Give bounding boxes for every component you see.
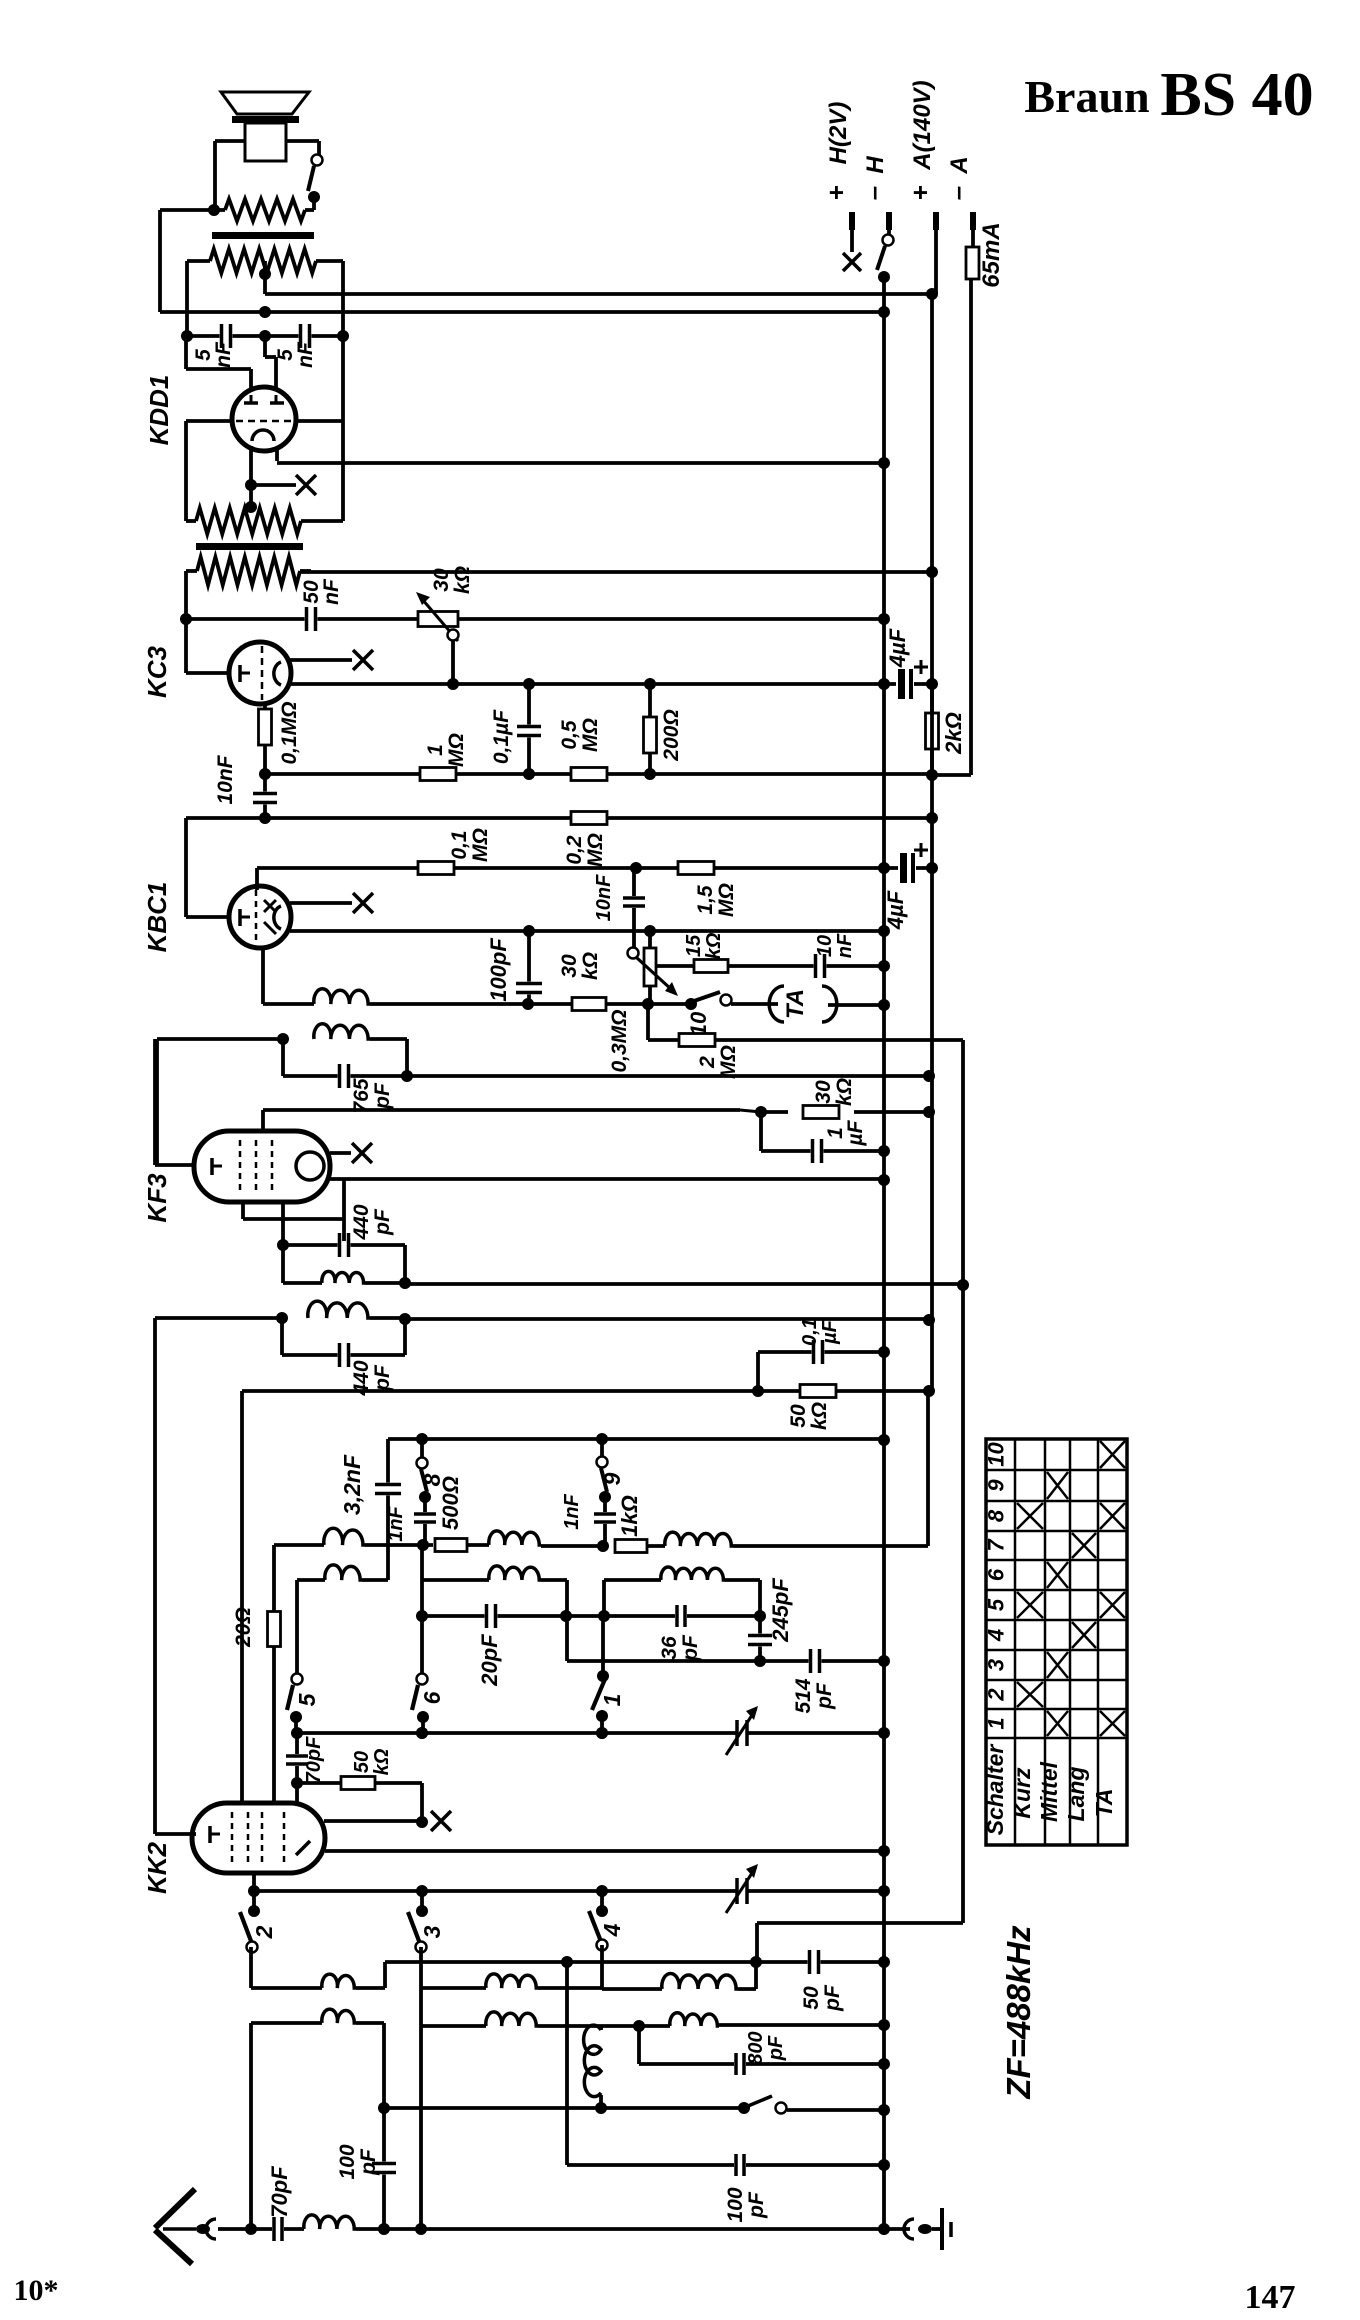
title BS 40 <box>1160 61 1313 129</box>
wire W33 KK2 cathode <box>248 1864 890 1913</box>
connector TA <box>731 986 890 1022</box>
resistor 50kOhm det <box>800 1385 836 1398</box>
label 800pF <box>745 2031 787 2064</box>
svg-text:BS 40: BS 40 <box>1160 61 1313 129</box>
resistor 30kOhm AGC <box>572 998 606 1011</box>
terminal +A <box>905 80 936 294</box>
svg-text:30: 30 <box>812 1080 835 1104</box>
svg-text:4: 4 <box>984 1629 1009 1642</box>
capacitor 10nF KBC1 <box>623 868 645 948</box>
switch 3 vertical <box>419 1947 423 2229</box>
svg-text:Kurz: Kurz <box>1009 1767 1035 1819</box>
coil ant row2 left <box>251 2009 390 2229</box>
svg-text:kΩ: kΩ <box>371 1748 393 1775</box>
label 0,3MOhm <box>608 1009 631 1072</box>
label 0,1MOhm KC3 <box>278 701 301 764</box>
svg-text:pF: pF <box>371 1364 394 1392</box>
wire W38 osc switch line <box>384 2102 750 2114</box>
resistor 0,1MOhm KC3 <box>259 704 272 773</box>
svg-text:MΩ: MΩ <box>717 1045 740 1079</box>
capacitor 100pF ant <box>372 2108 396 2235</box>
svg-text:KDD1: KDD1 <box>144 375 174 446</box>
wire KDD1 grid2 <box>265 336 276 395</box>
svg-text:H: H <box>862 156 889 174</box>
label 100pF KBC1 <box>486 938 511 1002</box>
svg-text:2: 2 <box>696 1056 719 1069</box>
svg-text:1nF: 1nF <box>561 1493 583 1529</box>
capacitor 1nF sw8 <box>414 1496 436 1545</box>
capacitor 765pF <box>283 1039 413 1088</box>
wire W23 box top <box>388 1433 890 1446</box>
svg-text:4µF: 4µF <box>885 628 910 668</box>
transformer core T2 <box>196 543 303 550</box>
svg-text:A(140V): A(140V) <box>909 80 936 170</box>
resistor 2MOhm <box>679 1034 715 1047</box>
label 1uF <box>824 1119 867 1146</box>
chassis X KDD1 <box>251 475 316 495</box>
resistor 0,5MOhm <box>571 768 607 781</box>
label 1kOhm <box>617 1495 642 1537</box>
label 36pF <box>658 1634 702 1662</box>
transformer core T1 <box>212 232 314 239</box>
svg-text:kΩ: kΩ <box>703 932 725 959</box>
label 30kOhm <box>430 566 474 594</box>
chassis X KF3 <box>330 1143 372 1163</box>
label KBC1 <box>142 882 172 953</box>
capacitor 440pF IF3 <box>282 1318 405 1367</box>
svg-text:+: + <box>821 185 851 200</box>
rail -H <box>882 277 886 2229</box>
svg-text:50: 50 <box>800 1986 823 2010</box>
svg-text:kΩ: kΩ <box>451 566 474 594</box>
label 765pF <box>350 1078 394 1113</box>
svg-text:kΩ: kΩ <box>579 952 602 980</box>
svg-text:–: – <box>858 186 888 200</box>
wire W4 secondary to +A <box>300 566 938 578</box>
label 500Ohm <box>438 1476 463 1530</box>
wire T2 secondary left leg <box>180 571 192 625</box>
label 30kOhm AGC <box>558 952 602 980</box>
svg-text:kΩ: kΩ <box>808 1402 831 1430</box>
label 50pF <box>800 1984 844 2012</box>
switch 8 <box>417 1439 446 1503</box>
svg-text:ZF=488kHz: ZF=488kHz <box>1000 1925 1037 2100</box>
svg-text:pF: pF <box>765 2035 787 2061</box>
capacitor 1uF <box>761 1112 890 1163</box>
label 50kOhm KK2 <box>351 1748 393 1775</box>
wire speaker left <box>215 141 245 210</box>
coil row2 right <box>601 2013 890 2032</box>
antenna <box>155 2189 216 2264</box>
switch 5 <box>287 1580 320 1739</box>
wire IF3 left leg <box>153 1318 157 1834</box>
svg-text:9: 9 <box>984 1479 1009 1492</box>
label 2MOhm <box>696 1045 740 1079</box>
svg-text:1: 1 <box>599 1694 625 1707</box>
resistor speaker field <box>225 199 305 221</box>
wire W12 cathode line <box>263 948 697 1010</box>
wire -A down leg <box>932 279 971 775</box>
potentiometer 0,3MOhm <box>628 925 679 1004</box>
svg-text:9: 9 <box>599 1472 625 1485</box>
wire row B right <box>604 1567 760 1616</box>
label 50nF <box>300 578 343 605</box>
capacitor 0,1uF <box>517 684 541 774</box>
page mark 10* <box>14 2274 59 2307</box>
svg-text:0,2: 0,2 <box>563 835 586 865</box>
svg-text:TA: TA <box>782 989 809 1019</box>
svg-text:10*: 10* <box>14 2274 59 2307</box>
label 20Ohm <box>232 1607 255 1648</box>
label 1,5MOhm <box>694 883 738 917</box>
label 0,1uF det <box>799 1318 841 1346</box>
wire W32 KK2 anode <box>325 1845 890 1857</box>
wire row B left <box>297 1565 388 1580</box>
switch 9 <box>597 1439 626 1503</box>
switch TA osc <box>748 2096 890 2116</box>
label 245pF <box>768 1578 793 1643</box>
wire W27 20pF line <box>422 1604 766 1628</box>
switch 3 <box>408 1891 445 1953</box>
svg-text:10nF: 10nF <box>214 754 237 804</box>
capacitor 4uF upper <box>884 660 938 699</box>
svg-text:4µF: 4µF <box>883 890 908 930</box>
svg-text:30: 30 <box>558 954 581 978</box>
coil osc mid row1 <box>421 1974 602 1988</box>
svg-text:–: – <box>942 186 972 200</box>
svg-text:KC3: KC3 <box>142 645 172 698</box>
wire KK2 grid left <box>155 1832 196 1836</box>
svg-text:70pF: 70pF <box>303 1736 325 1783</box>
wire W14 to +A rail <box>407 1070 935 1082</box>
resistor 30kOhm volume <box>416 592 458 641</box>
wire W15 KF3 screen top <box>263 1106 935 1135</box>
capacitor 5nF right <box>265 324 343 348</box>
svg-text:5: 5 <box>294 1692 320 1706</box>
wire resistor right <box>305 208 314 212</box>
svg-text:20pF: 20pF <box>477 1634 502 1687</box>
svg-text:514: 514 <box>792 1678 815 1713</box>
capacitor 10nF KC3 <box>253 774 277 818</box>
svg-text:4: 4 <box>599 1923 625 1937</box>
capacitor 50nF <box>305 607 318 631</box>
wire T1 right leg <box>337 261 349 421</box>
capacitor 70pF KK2 <box>286 1733 308 1789</box>
terminal -A <box>942 156 973 247</box>
svg-text:800: 800 <box>745 2031 767 2064</box>
coil osc big row1 <box>602 1945 756 1989</box>
label 10nF KBC1 <box>593 874 615 921</box>
svg-text:pF: pF <box>371 1208 394 1236</box>
wire W34 50pF line <box>385 1950 890 1988</box>
winding T1 primary <box>187 249 343 273</box>
tube KK2 <box>192 1803 325 1873</box>
resistor 0,2MOhm <box>571 812 607 825</box>
wire W22 50kOhm line <box>242 1385 935 1397</box>
winding T2 primary <box>186 508 301 534</box>
label KK2 <box>142 1841 172 1894</box>
wire sw6 vertical <box>416 1545 428 1674</box>
svg-text:1kΩ: 1kΩ <box>617 1495 642 1537</box>
wire W28 514pF line <box>567 1649 890 1673</box>
svg-text:1,5: 1,5 <box>694 885 717 915</box>
wire W2 to -H <box>160 306 890 318</box>
wire 30k tap <box>447 630 459 691</box>
svg-text:0,1MΩ: 0,1MΩ <box>278 701 301 764</box>
svg-text:Lang: Lang <box>1063 1767 1089 1822</box>
svg-text:5: 5 <box>984 1598 1009 1611</box>
wire W39 100pF line <box>567 1962 890 2176</box>
winding T2 secondary <box>186 557 311 585</box>
wire speaker resistor left <box>160 204 225 312</box>
label 4uF upper <box>885 628 910 668</box>
wire W7 bias line <box>259 768 932 780</box>
wire W13 2MOhm line <box>648 1004 963 1285</box>
label 100pF osc <box>724 2187 768 2222</box>
label 1nF sw9 <box>561 1493 583 1529</box>
svg-text:245pF: 245pF <box>768 1578 793 1643</box>
svg-text:nF: nF <box>834 933 856 958</box>
svg-text:nF: nF <box>294 341 317 368</box>
svg-text:6: 6 <box>419 1691 445 1704</box>
resistor 200Ohm <box>644 678 657 774</box>
wire W6 KC3 anode <box>290 678 890 690</box>
switch speaker <box>308 155 323 211</box>
svg-text:pF: pF <box>371 1082 394 1110</box>
tube KDD1 <box>232 387 296 451</box>
svg-text:65mA: 65mA <box>978 222 1005 287</box>
coil ant short row1 <box>251 1947 385 1988</box>
svg-text:0,1µF: 0,1µF <box>490 709 513 764</box>
label 5nF left <box>192 341 235 368</box>
label 440pF IF2 <box>350 1204 394 1240</box>
svg-text:500Ω: 500Ω <box>438 1476 463 1530</box>
label ZF=488kHz <box>1000 1925 1037 2100</box>
svg-text:1nF: 1nF <box>385 1505 407 1541</box>
label 100pF ant <box>336 2144 380 2179</box>
svg-text:100: 100 <box>724 2187 747 2222</box>
capacitor 0,1uF det <box>758 1340 890 1391</box>
svg-text:pF: pF <box>821 1984 844 2012</box>
label 1MOhm <box>424 733 468 767</box>
svg-text:6: 6 <box>984 1568 1009 1581</box>
switch 6 <box>412 1674 445 1740</box>
svg-text:7: 7 <box>984 1538 1009 1552</box>
svg-text:20Ω: 20Ω <box>232 1607 255 1648</box>
chassis X KK2 <box>324 1811 451 1831</box>
svg-text:10: 10 <box>984 1442 1009 1467</box>
svg-text:10: 10 <box>814 935 836 957</box>
svg-text:2: 2 <box>251 1925 277 1939</box>
wire +A feed W1 <box>265 288 938 300</box>
label 50kOhm det <box>787 1402 831 1430</box>
svg-text:50: 50 <box>787 1404 810 1428</box>
label KC3 <box>142 645 172 698</box>
terminal -H <box>858 156 894 283</box>
svg-text:nF: nF <box>212 341 235 368</box>
svg-text:pF: pF <box>357 2148 380 2176</box>
wire speaker right <box>286 141 319 155</box>
svg-text:440: 440 <box>350 1204 373 1240</box>
tube KC3 <box>229 642 291 704</box>
svg-text:3,2nF: 3,2nF <box>339 1454 365 1515</box>
wire W29 padder line <box>297 1706 890 1755</box>
svg-text:200Ω: 200Ω <box>660 709 683 761</box>
svg-text:pF: pF <box>745 2191 768 2219</box>
fuse 65mA <box>966 222 1005 287</box>
wire KDD1 anode out <box>277 448 890 469</box>
resistor 1MOhm <box>420 768 456 781</box>
resistor 20Ohm <box>268 1545 281 1803</box>
coil row2 mid <box>421 2012 601 2026</box>
wire IF1 left leg <box>155 1039 159 1165</box>
svg-text:Schalter: Schalter <box>982 1744 1008 1836</box>
wire KK2 g4 vertical <box>240 1391 244 1803</box>
label 20pF <box>477 1634 502 1687</box>
svg-text:100pF: 100pF <box>486 938 511 1002</box>
svg-text:0,1: 0,1 <box>448 830 471 859</box>
coil osc vertical <box>584 2025 607 2114</box>
label 0,2MOhm <box>563 833 607 867</box>
svg-text:Mittel: Mittel <box>1036 1761 1062 1822</box>
wire W9 KBC1 grid top <box>257 862 890 890</box>
label 30kOhm KF3 <box>812 1078 856 1106</box>
svg-text:2kΩ: 2kΩ <box>941 712 966 755</box>
wire KDD1 anode rect left <box>186 421 233 521</box>
svg-text:TA: TA <box>1091 1789 1117 1818</box>
svg-text:H(2V): H(2V) <box>825 102 852 165</box>
label 10nF TA <box>814 933 856 958</box>
resistor 15kOhm <box>655 954 890 978</box>
svg-text:MΩ: MΩ <box>469 828 492 862</box>
coil KBC1 cathode <box>314 989 370 1004</box>
wire W8 0,2M line <box>186 812 938 824</box>
wire row B mid <box>423 1566 567 1661</box>
coil IF3 top <box>155 1301 411 1325</box>
capacitor 245pF <box>748 1616 772 1667</box>
svg-text:MΩ: MΩ <box>584 833 607 867</box>
svg-text:70pF: 70pF <box>267 2166 292 2218</box>
svg-text:15: 15 <box>683 934 705 957</box>
label 0,1MOhm KBC1 <box>448 828 492 862</box>
capacitor 4uF lower <box>884 843 938 883</box>
svg-text:KK2: KK2 <box>142 1841 172 1894</box>
tube KF3 <box>194 1131 330 1202</box>
label 0,5MOhm <box>558 718 602 752</box>
wire KDD1 cathode <box>245 446 257 513</box>
label 440pF IF3 <box>350 1360 394 1396</box>
rail +A <box>930 294 934 1391</box>
wire W40 antenna line <box>218 2215 890 2241</box>
resistor 30kOhm KF3 <box>803 1106 839 1119</box>
terminal +H <box>821 102 861 271</box>
wire KK2 grid1 vertical <box>295 1783 299 1803</box>
table Schalter <box>982 1439 1127 1845</box>
svg-text:nF: nF <box>320 578 343 605</box>
wire W30 KK2 grid <box>297 1777 428 1829</box>
svg-text:10nF: 10nF <box>593 874 615 921</box>
svg-text:MΩ: MΩ <box>715 883 738 917</box>
label 2kOhm <box>941 712 966 755</box>
svg-text:2: 2 <box>984 1688 1009 1702</box>
switch 10 <box>686 992 732 1036</box>
capacitor 800pF <box>639 2026 890 2075</box>
svg-text:147: 147 <box>1245 2279 1296 2316</box>
svg-text:0,5: 0,5 <box>558 720 581 750</box>
svg-text:pF: pF <box>813 1682 836 1710</box>
capacitor 3,2nF <box>375 1439 401 1580</box>
capacitor 440pF IF2 <box>277 1202 405 1283</box>
svg-text:µF: µF <box>844 1119 867 1146</box>
wire W17 KF3 anode <box>330 1174 890 1186</box>
svg-text:MΩ: MΩ <box>579 718 602 752</box>
coil IF1 top <box>157 1024 407 1076</box>
label 15kOhm <box>683 932 725 959</box>
tube KBC1 <box>229 886 291 948</box>
wire KBC1 grid <box>186 818 230 917</box>
svg-text:+: + <box>905 185 935 200</box>
svg-text:MΩ: MΩ <box>445 733 468 767</box>
svg-text:30: 30 <box>430 568 453 592</box>
wire W20 to +A rail <box>405 1314 935 1326</box>
svg-text:0,1: 0,1 <box>799 1318 821 1346</box>
svg-text:KBC1: KBC1 <box>142 882 172 953</box>
switch 2 <box>240 1891 277 1953</box>
label 514pF <box>792 1678 836 1713</box>
svg-text:3: 3 <box>419 1925 445 1938</box>
svg-text:Braun: Braun <box>1024 71 1149 122</box>
svg-text:50: 50 <box>351 1751 373 1773</box>
label 200Ohm <box>660 709 683 761</box>
svg-text:1: 1 <box>424 744 447 756</box>
wire W24 row A <box>274 1391 928 1553</box>
label KDD1 <box>144 375 174 446</box>
label 70pF KK2 <box>303 1736 325 1783</box>
label 10nF KC3 <box>214 754 237 804</box>
wire W11 KBC1 anode <box>290 925 890 937</box>
svg-text:A: A <box>946 156 973 174</box>
wire W19 to osc rail <box>405 1279 969 1291</box>
speaker LS <box>221 92 309 161</box>
wire KC3 grid <box>186 619 230 673</box>
switch 1 <box>592 1616 625 1739</box>
chassis X KBC1 <box>290 893 373 913</box>
switch 4 <box>589 1891 625 1951</box>
svg-text:100: 100 <box>336 2144 359 2179</box>
capacitor 5nF left <box>187 324 271 348</box>
wire T1 left leg <box>181 261 193 342</box>
label KF3 <box>142 1173 172 1223</box>
node T1 tap <box>259 261 271 294</box>
ground <box>884 2208 951 2250</box>
capacitor 100pF KBC1 <box>516 931 542 1004</box>
svg-text:3: 3 <box>984 1659 1009 1671</box>
wire KF3 screen bottom <box>243 1179 344 1245</box>
wire KDD1 grid loop <box>186 336 251 395</box>
wire KDD1 anode rect right <box>295 421 343 521</box>
label 70pF ant <box>267 2166 292 2218</box>
coil IF2 <box>283 1245 411 1289</box>
chassis X KC3 <box>290 650 373 670</box>
resistor 1,5MOhm <box>678 862 714 875</box>
svg-text:8: 8 <box>984 1509 1009 1522</box>
capacitor 1nF sw9 <box>594 1496 616 1546</box>
label 1nF sw8 <box>385 1505 407 1541</box>
resistor 0,1MOhm KBC1 <box>418 862 454 875</box>
svg-text:36: 36 <box>658 1636 681 1660</box>
label 5nF right <box>274 341 317 368</box>
svg-text:kΩ: kΩ <box>833 1078 856 1106</box>
